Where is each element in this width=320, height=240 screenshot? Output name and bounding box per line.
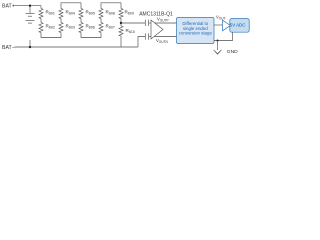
wire col4 mid (100, 19, 102, 23)
svg-text:VOUT: VOUT (216, 15, 226, 21)
wire R610 to BAT- rail (120, 36, 122, 47)
wire col3 mid (80, 19, 82, 23)
node tap junction dot (120, 22, 122, 24)
svg-text:GND: GND (227, 49, 238, 55)
resistor R601 (39, 9, 43, 19)
svg-text:5V ADC: 5V ADC (230, 23, 246, 28)
resistor R605 (79, 9, 83, 19)
svg-text:R604: R604 (66, 10, 75, 16)
svg-text:BAT−: BAT− (2, 45, 15, 51)
svg-text:R607: R607 (106, 24, 115, 30)
wire BAT- to AMC input VINN (138, 37, 145, 48)
block differential to single-ended conversion stage (177, 18, 215, 44)
svg-text:R603: R603 (66, 24, 75, 30)
wire bridge col2-col3 top (61, 3, 81, 9)
resistor R607 (99, 23, 103, 33)
wire BAT+ rail (15, 6, 42, 9)
capacitor isolation barrier top (145, 20, 151, 26)
resistor R604 (59, 9, 63, 19)
svg-text:R605: R605 (86, 10, 95, 16)
wire U col3-col4 bottom (81, 33, 101, 38)
svg-text:VOUTN: VOUTN (156, 38, 169, 44)
wire BAT- rail (15, 46, 139, 48)
wire arrowhead into ADC (223, 20, 231, 31)
svg-text:BAT+: BAT+ (2, 3, 15, 9)
resistor R610 (119, 26, 123, 36)
wire U col1-col2 bottom (41, 33, 61, 38)
resistor R603 (59, 23, 63, 33)
wire GND return (214, 32, 233, 40)
resistor R609 (119, 9, 123, 19)
wire tap to AMC input VINP (121, 22, 145, 24)
svg-text:R601: R601 (46, 10, 55, 16)
node junction dot GND (217, 40, 219, 42)
wire VOUTP output (155, 22, 177, 24)
svg-text:R610: R610 (126, 28, 135, 34)
node junction dot battery bottom (29, 46, 31, 48)
resistor R608 (99, 9, 103, 19)
wire col5 to tap (120, 19, 122, 27)
svg-text:R608: R608 (106, 10, 115, 16)
wire col2 mid (60, 19, 62, 23)
wire VOUT to ADC (214, 24, 224, 26)
block 5V ADC (230, 19, 249, 33)
wire bridge col4-col5 top (101, 3, 121, 9)
ground symbol (214, 41, 222, 55)
node junction dot battery top (29, 5, 31, 7)
svg-text:R606: R606 (86, 24, 95, 30)
op-amp U1 triangle (151, 20, 163, 39)
wire VOUTN output (155, 36, 177, 38)
resistor R606 (79, 23, 83, 33)
wire col1 mid (40, 19, 42, 23)
svg-text:conversion stage: conversion stage (179, 31, 213, 36)
resistor R602 (39, 23, 43, 33)
capacitor isolation barrier bottom (145, 33, 151, 39)
svg-text:R609: R609 (125, 10, 134, 16)
battery BT1 stack (26, 6, 35, 47)
svg-text:R602: R602 (46, 24, 55, 30)
